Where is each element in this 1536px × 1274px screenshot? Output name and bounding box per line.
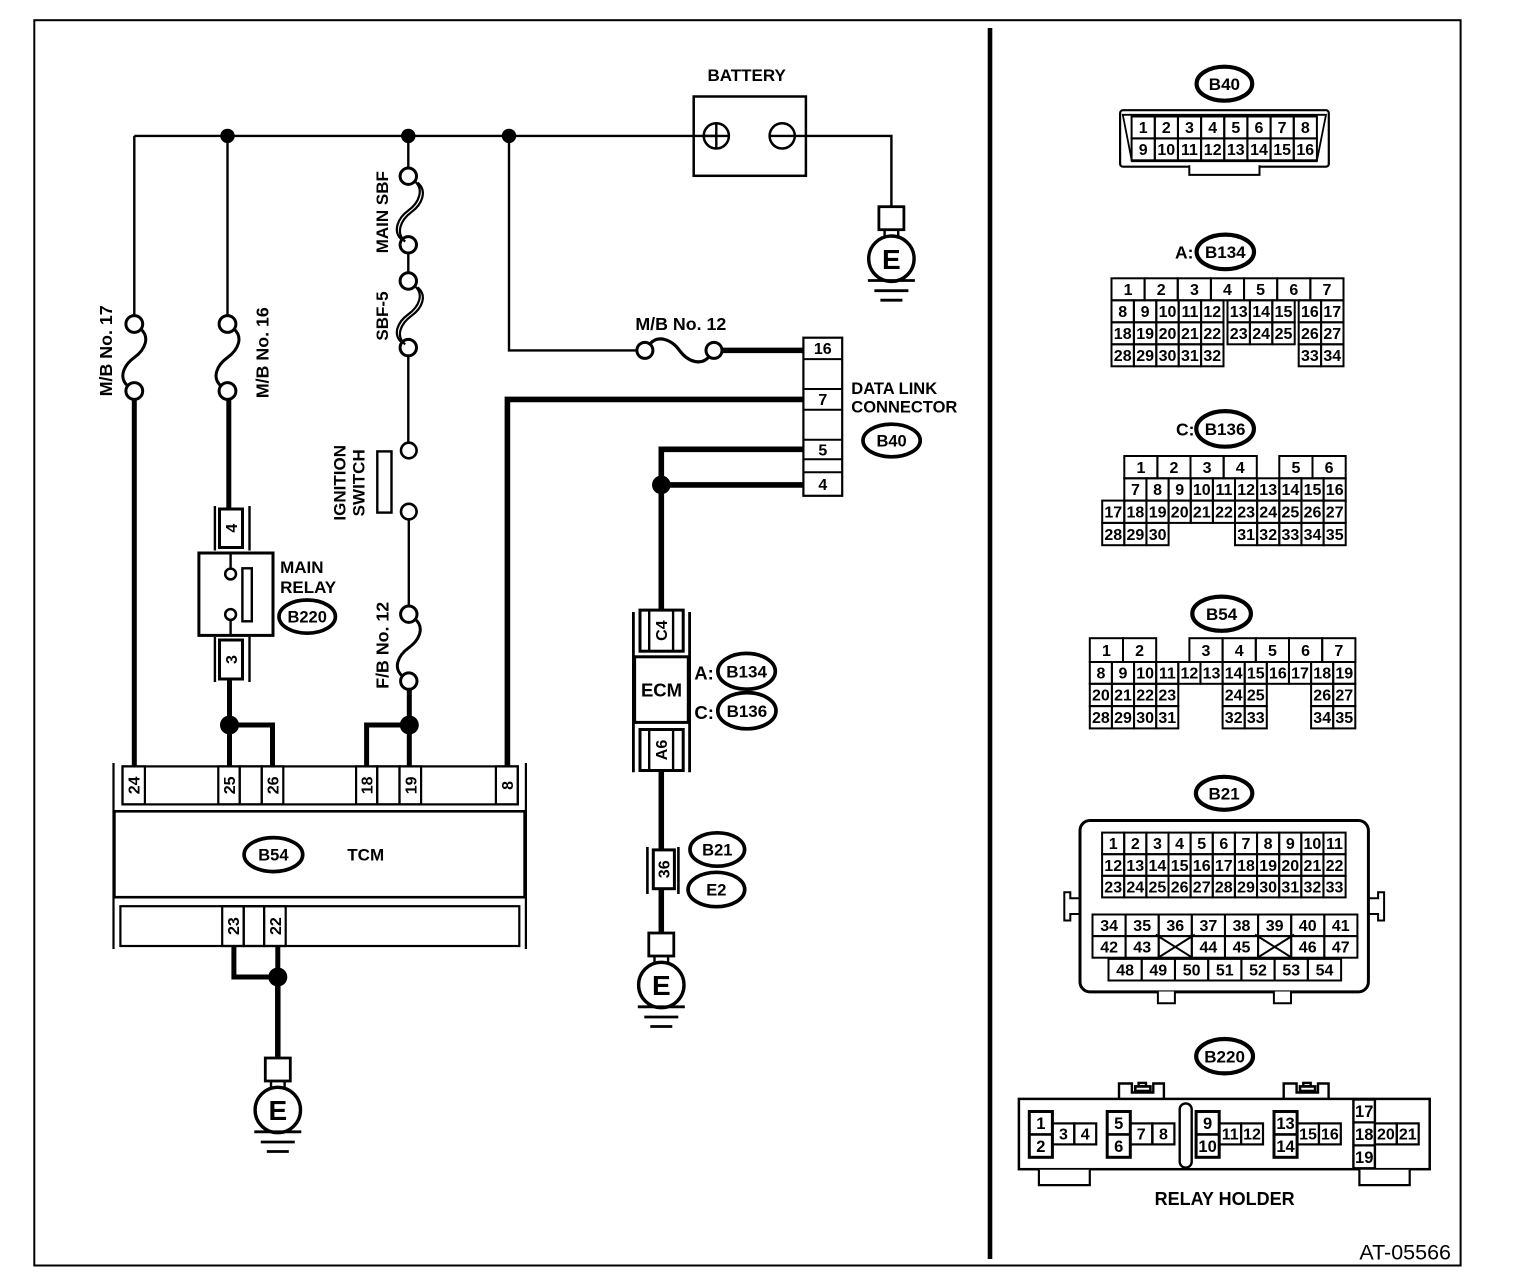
wire: junction to TCM pin 19 [407, 725, 412, 766]
svg-text:5: 5 [1268, 643, 1277, 660]
svg-text:22: 22 [268, 917, 285, 935]
svg-text:52: 52 [1249, 963, 1267, 980]
svg-text:1: 1 [1102, 643, 1111, 660]
connector view B134 (ECM connector A face) [1112, 278, 1344, 366]
svg-text:41: 41 [1332, 918, 1350, 935]
svg-text:27: 27 [1323, 326, 1341, 343]
wire: ignition switch to fuse F/B No.12 [408, 519, 410, 606]
svg-text:30: 30 [1259, 879, 1277, 896]
svg-text:42: 42 [1100, 940, 1118, 957]
svg-text:4: 4 [1175, 836, 1184, 853]
svg-text:28: 28 [1092, 710, 1110, 727]
svg-text:17: 17 [1323, 304, 1341, 321]
svg-text:3: 3 [1059, 1127, 1068, 1144]
svg-text:10: 10 [1193, 482, 1211, 499]
connector oval B21 (pinout) [1196, 777, 1252, 810]
svg-text:50: 50 [1183, 963, 1201, 980]
svg-text:13: 13 [1259, 482, 1277, 499]
svg-text:21: 21 [1304, 858, 1322, 875]
svg-text:2: 2 [1131, 836, 1140, 853]
connector oval B220 [279, 600, 335, 633]
connector view B220 relay holder (body) [1019, 1083, 1430, 1185]
svg-text:32: 32 [1304, 879, 1322, 896]
svg-text:DATA LINK: DATA LINK [851, 380, 937, 398]
svg-text:ECM: ECM [641, 680, 682, 701]
svg-text:CONNECTOR: CONNECTOR [851, 398, 957, 416]
connector pin 3 (main relay) [214, 637, 216, 682]
svg-text:34: 34 [1313, 710, 1331, 727]
svg-text:19: 19 [1355, 1149, 1373, 1167]
svg-text:15: 15 [1275, 304, 1293, 321]
svg-text:8: 8 [1264, 836, 1273, 853]
svg-text:20: 20 [1377, 1127, 1395, 1144]
svg-text:BATTERY: BATTERY [708, 66, 787, 85]
svg-text:31: 31 [1281, 879, 1299, 896]
svg-text:6: 6 [1301, 643, 1310, 660]
svg-text:26: 26 [266, 776, 283, 794]
svg-text:4: 4 [224, 524, 241, 533]
svg-text:7: 7 [818, 392, 827, 409]
fuse M/B No.16 [219, 316, 236, 333]
svg-text:15: 15 [1299, 1127, 1317, 1144]
svg-text:16: 16 [1326, 482, 1344, 499]
svg-text:25: 25 [1282, 505, 1300, 522]
svg-text:F/B No. 12: F/B No. 12 [373, 602, 393, 689]
wire: relay pin 3 down to junction [227, 679, 232, 725]
svg-text:9: 9 [1141, 304, 1150, 321]
svg-text:A:: A: [1175, 243, 1193, 263]
ECM connector C4 [640, 610, 683, 651]
svg-text:26: 26 [1304, 505, 1322, 522]
connector oval B220 (pinout) [1196, 1039, 1253, 1073]
svg-text:B220: B220 [1204, 1047, 1245, 1066]
svg-text:3: 3 [1203, 460, 1212, 477]
svg-text:12: 12 [1243, 1127, 1261, 1144]
svg-text:18: 18 [360, 776, 377, 794]
svg-text:6: 6 [1255, 120, 1264, 137]
svg-text:AT-05566: AT-05566 [1359, 1241, 1451, 1265]
svg-text:36: 36 [1166, 918, 1184, 935]
wire: TCM pin 23 to junction [234, 946, 278, 977]
svg-text:27: 27 [1335, 688, 1353, 705]
wire: bus to fuse M/B No.16 [226, 136, 228, 316]
wire: MAIN SBF to SBF-5 [407, 253, 409, 273]
svg-text:19: 19 [1259, 858, 1277, 875]
TCM U2 body [114, 811, 524, 897]
svg-text:10: 10 [1136, 666, 1154, 683]
svg-text:4: 4 [1208, 120, 1217, 137]
svg-text:8: 8 [1118, 304, 1127, 321]
svg-text:20: 20 [1092, 688, 1110, 705]
svg-text:B21: B21 [702, 841, 732, 859]
svg-text:16: 16 [1301, 304, 1319, 321]
svg-text:SWITCH: SWITCH [349, 449, 368, 516]
svg-text:9: 9 [1119, 666, 1128, 683]
svg-text:14: 14 [1225, 666, 1243, 683]
svg-text:32: 32 [1259, 527, 1277, 544]
svg-text:B136: B136 [1205, 420, 1246, 439]
svg-text:5: 5 [1231, 120, 1240, 137]
svg-text:24: 24 [1225, 688, 1243, 705]
TCM connector rails [112, 763, 114, 949]
svg-text:7: 7 [1278, 120, 1287, 137]
wire: bus to fuse M/B No.17 [133, 136, 135, 316]
svg-text:16: 16 [1193, 858, 1211, 875]
svg-text:20: 20 [1171, 505, 1189, 522]
TCM pin 24 [123, 766, 145, 804]
svg-text:15: 15 [1304, 482, 1322, 499]
svg-text:45: 45 [1233, 940, 1251, 957]
TCM empty cell [244, 906, 264, 946]
svg-text:B134: B134 [1205, 243, 1246, 262]
svg-text:15: 15 [1273, 142, 1291, 159]
svg-text:20: 20 [1281, 858, 1299, 875]
svg-text:33: 33 [1282, 527, 1300, 544]
battery B1 [694, 97, 806, 176]
svg-text:18: 18 [1355, 1126, 1373, 1144]
svg-text:34: 34 [1304, 527, 1322, 544]
wire: fuse F/B No.12 to junction [407, 689, 412, 725]
TCM pin 18 [356, 766, 377, 804]
svg-text:3: 3 [1190, 282, 1199, 299]
svg-text:C4: C4 [654, 620, 671, 641]
svg-text:25: 25 [1149, 879, 1167, 896]
main relay B220 body [199, 553, 273, 635]
svg-text:B40: B40 [1209, 75, 1240, 94]
svg-text:6: 6 [1219, 836, 1228, 853]
svg-text:SBF-5: SBF-5 [373, 291, 392, 340]
svg-text:18: 18 [1237, 858, 1255, 875]
svg-text:33: 33 [1247, 710, 1265, 727]
svg-text:11: 11 [1181, 142, 1198, 159]
svg-text:26: 26 [1313, 688, 1331, 705]
svg-text:11: 11 [1181, 304, 1198, 321]
svg-text:37: 37 [1200, 918, 1218, 935]
svg-text:4: 4 [1235, 643, 1244, 660]
connector oval B40 (pinout) [1197, 67, 1253, 101]
svg-text:44: 44 [1200, 940, 1218, 957]
wire: bus to fuse M/B No.12 [509, 136, 637, 351]
svg-text:30: 30 [1159, 348, 1177, 365]
svg-text:31: 31 [1237, 527, 1255, 544]
svg-text:10: 10 [1304, 836, 1322, 853]
wire: junction to ground [275, 977, 281, 1058]
svg-text:22: 22 [1203, 326, 1221, 343]
svg-text:54: 54 [1316, 963, 1334, 980]
svg-text:3: 3 [224, 655, 241, 664]
svg-text:8: 8 [1096, 666, 1105, 683]
svg-text:16: 16 [1321, 1127, 1339, 1144]
svg-text:46: 46 [1299, 940, 1317, 957]
svg-text:32: 32 [1203, 348, 1221, 365]
svg-text:22: 22 [1326, 858, 1344, 875]
wire: fuse M/B No.16 to main relay pin 4 [226, 399, 231, 508]
data link connector B40 [803, 338, 842, 496]
wire: connector 36 to ground [659, 889, 665, 933]
ECM connector rails [632, 612, 635, 772]
svg-text:13: 13 [1230, 304, 1248, 321]
connector oval B40 [863, 424, 920, 457]
svg-text:30: 30 [1149, 527, 1167, 544]
svg-text:28: 28 [1114, 348, 1132, 365]
svg-text:13: 13 [1203, 666, 1221, 683]
connector view B136 (ECM connector C face) [1102, 456, 1346, 545]
ground E (TCM) [254, 1058, 301, 1152]
node: junction ignition feed [400, 716, 419, 735]
connector pin 36 (B21/E2) [647, 847, 678, 894]
svg-text:4: 4 [818, 477, 827, 494]
fuse MAIN SBF [400, 168, 416, 184]
svg-text:35: 35 [1133, 918, 1151, 935]
svg-text:2: 2 [1157, 282, 1166, 299]
svg-text:53: 53 [1282, 963, 1300, 980]
svg-text:6: 6 [1325, 460, 1334, 477]
svg-text:21: 21 [1181, 326, 1199, 343]
TCM empty cell [377, 766, 399, 804]
svg-text:36: 36 [656, 860, 673, 878]
svg-text:B21: B21 [1209, 784, 1240, 803]
svg-text:24: 24 [127, 776, 144, 794]
wire: junction to TCM pin 18 [367, 725, 410, 766]
wire: battery negative to ground [795, 136, 892, 207]
svg-text:5: 5 [1114, 1115, 1123, 1133]
svg-text:14: 14 [1276, 1138, 1295, 1156]
wire: ECM A6 to connector 36 [659, 771, 665, 850]
connector view B40 (data link connector face) [1120, 110, 1329, 175]
svg-text:1: 1 [1136, 460, 1145, 477]
svg-text:28: 28 [1215, 879, 1233, 896]
svg-text:18: 18 [1313, 666, 1331, 683]
svg-text:51: 51 [1216, 963, 1234, 980]
svg-text:MAIN SBF: MAIN SBF [373, 171, 392, 253]
svg-text:17: 17 [1104, 505, 1122, 522]
svg-text:11: 11 [1326, 836, 1343, 853]
svg-text:40: 40 [1299, 918, 1317, 935]
svg-text:9: 9 [1175, 482, 1184, 499]
connector view B54 (TCM connector face) [1090, 638, 1356, 728]
svg-text:7: 7 [1131, 482, 1140, 499]
ECM U1 body [635, 657, 689, 723]
svg-text:17: 17 [1291, 666, 1309, 683]
wire: DLC pin 4 to junction [661, 482, 803, 488]
wire: fuse M/B No.12 to DLC pin 16 [722, 348, 803, 354]
svg-text:13: 13 [1126, 858, 1144, 875]
svg-text:1: 1 [1036, 1115, 1045, 1133]
node: junction DLC 4/5 [652, 476, 671, 495]
wire: SBF-5 to ignition switch [407, 356, 409, 443]
svg-text:2: 2 [1036, 1138, 1045, 1156]
connector view B220 (pin cells) [1029, 1100, 1418, 1169]
svg-text:27: 27 [1193, 879, 1211, 896]
svg-text:16: 16 [1296, 142, 1314, 159]
svg-text:B54: B54 [258, 847, 289, 865]
svg-text:MAIN: MAIN [280, 558, 323, 577]
node: bus junction to M/B No.16 [220, 129, 234, 143]
svg-text:19: 19 [1136, 326, 1154, 343]
svg-text:24: 24 [1252, 326, 1270, 343]
svg-text:9: 9 [1286, 836, 1295, 853]
svg-text:21: 21 [1114, 688, 1132, 705]
fuse F/B No.12 [401, 606, 417, 622]
svg-text:5: 5 [1256, 282, 1265, 299]
svg-text:9: 9 [1139, 142, 1148, 159]
svg-text:18: 18 [1127, 505, 1145, 522]
svg-text:8: 8 [1301, 120, 1310, 137]
svg-text:34: 34 [1100, 918, 1118, 935]
svg-text:24: 24 [1259, 505, 1277, 522]
svg-text:3: 3 [1202, 643, 1211, 660]
svg-text:29: 29 [1136, 348, 1154, 365]
svg-text:34: 34 [1323, 348, 1341, 365]
svg-text:38: 38 [1233, 918, 1251, 935]
svg-text:TCM: TCM [347, 846, 384, 865]
connector view B21 (body) [1064, 821, 1384, 1004]
fuse M/B No.12 [637, 342, 653, 358]
node: bus junction to M/B No.12 [502, 129, 516, 143]
ECM connector A6 [640, 730, 683, 771]
svg-text:3: 3 [1153, 836, 1162, 853]
svg-text:26: 26 [1301, 326, 1319, 343]
wire: +B bus from M/B No.17 branch to battery [134, 135, 716, 137]
svg-text:11: 11 [1222, 1127, 1239, 1144]
svg-text:B40: B40 [876, 432, 906, 450]
svg-text:12: 12 [1237, 482, 1255, 499]
svg-text:14: 14 [1149, 858, 1167, 875]
svg-text:23: 23 [1158, 688, 1176, 705]
wire: bus to MAIN SBF [407, 136, 409, 168]
svg-text:A6: A6 [654, 740, 671, 761]
svg-text:14: 14 [1250, 142, 1268, 159]
svg-text:25: 25 [1275, 326, 1293, 343]
TCM pin 8 [496, 766, 518, 804]
svg-text:32: 32 [1225, 710, 1243, 727]
svg-text:B54: B54 [1206, 605, 1238, 624]
svg-text:31: 31 [1158, 710, 1176, 727]
connector oval B54 [244, 838, 303, 872]
svg-text:25: 25 [1247, 688, 1265, 705]
svg-text:18: 18 [1114, 326, 1132, 343]
svg-text:11: 11 [1216, 482, 1233, 499]
connector oval B21 [690, 833, 745, 866]
svg-text:22: 22 [1136, 688, 1154, 705]
svg-text:25: 25 [222, 776, 239, 794]
TCM pin 22 [264, 906, 286, 946]
svg-text:4: 4 [1081, 1127, 1090, 1144]
svg-text:14: 14 [1252, 304, 1270, 321]
svg-text:IGNITION: IGNITION [330, 445, 349, 521]
svg-text:10: 10 [1159, 304, 1177, 321]
svg-text:12: 12 [1203, 304, 1221, 321]
svg-text:43: 43 [1133, 940, 1151, 957]
svg-text:26: 26 [1171, 879, 1189, 896]
svg-text:E: E [882, 244, 901, 275]
wire: junction to TCM pin 26 [230, 725, 273, 766]
wire: TCM pin 22 to junction [275, 946, 280, 977]
connector pin 4 (main relay) [214, 506, 216, 551]
svg-text:11: 11 [1159, 666, 1176, 683]
svg-text:23: 23 [1237, 505, 1255, 522]
svg-text:29: 29 [1127, 527, 1145, 544]
svg-text:16: 16 [814, 341, 832, 358]
svg-text:33: 33 [1326, 879, 1344, 896]
svg-text:B134: B134 [726, 662, 767, 681]
fuse M/B No.17 [126, 316, 143, 333]
connector oval B54 (pinout) [1192, 597, 1251, 631]
svg-text:12: 12 [1104, 858, 1122, 875]
wire: fuse M/B No.17 to TCM pin 24 [132, 399, 137, 766]
svg-text:1: 1 [1109, 836, 1118, 853]
svg-text:23: 23 [1104, 879, 1122, 896]
svg-text:M/B No. 12: M/B No. 12 [635, 314, 726, 334]
svg-text:3: 3 [1185, 120, 1194, 137]
svg-text:M/B No. 17: M/B No. 17 [96, 305, 116, 396]
ground E (battery) [868, 207, 915, 301]
svg-text:27: 27 [1326, 505, 1344, 522]
svg-text:20: 20 [1159, 326, 1177, 343]
svg-text:7: 7 [1137, 1127, 1146, 1144]
svg-text:B220: B220 [287, 609, 326, 627]
svg-text:14: 14 [1282, 482, 1300, 499]
svg-text:A:: A: [694, 663, 714, 684]
svg-text:33: 33 [1301, 348, 1319, 365]
connector view B21 (pin grid) [1093, 833, 1358, 981]
svg-text:19: 19 [1149, 505, 1167, 522]
svg-text:35: 35 [1335, 710, 1353, 727]
svg-text:15: 15 [1171, 858, 1189, 875]
wire: junction to TCM pin 25 [227, 725, 232, 766]
ground E (ECM) [638, 933, 685, 1027]
svg-text:10: 10 [1157, 142, 1175, 159]
svg-text:5: 5 [818, 442, 827, 459]
svg-text:5: 5 [1197, 836, 1206, 853]
svg-text:22: 22 [1215, 505, 1233, 522]
svg-text:C:: C: [1176, 420, 1194, 440]
svg-text:47: 47 [1332, 940, 1350, 957]
svg-text:2: 2 [1170, 460, 1179, 477]
svg-text:8: 8 [500, 781, 517, 790]
ignition switch SW1 [377, 443, 416, 520]
svg-text:31: 31 [1181, 348, 1199, 365]
wire: DLC pin 7 to TCM pin 8 [507, 399, 803, 766]
svg-text:12: 12 [1181, 666, 1199, 683]
svg-text:29: 29 [1237, 879, 1255, 896]
svg-text:6: 6 [1289, 282, 1298, 299]
svg-text:E2: E2 [706, 881, 726, 899]
TCM pin 19 [400, 766, 422, 804]
svg-text:1: 1 [1139, 120, 1148, 137]
svg-text:9: 9 [1203, 1115, 1212, 1133]
svg-text:17: 17 [1355, 1103, 1373, 1121]
TCM top connector row B54 [123, 766, 518, 804]
svg-text:23: 23 [1230, 326, 1248, 343]
fuse SBF-5 [400, 273, 416, 289]
svg-text:M/B No. 16: M/B No. 16 [253, 307, 273, 398]
svg-text:8: 8 [1159, 1127, 1168, 1144]
svg-text:17: 17 [1215, 858, 1233, 875]
vertical divider between schematic and connector views [988, 28, 993, 1259]
TCM pin 26 [262, 766, 284, 804]
TCM pin 23 [222, 906, 244, 946]
svg-text:28: 28 [1104, 527, 1122, 544]
svg-text:19: 19 [1335, 666, 1353, 683]
svg-text:29: 29 [1114, 710, 1132, 727]
svg-text:12: 12 [1204, 142, 1222, 159]
svg-text:21: 21 [1399, 1127, 1417, 1144]
svg-text:B136: B136 [727, 702, 768, 721]
svg-text:19: 19 [403, 776, 420, 794]
connector oval E2 [688, 872, 745, 906]
node: junction TCM grounds [268, 968, 287, 987]
